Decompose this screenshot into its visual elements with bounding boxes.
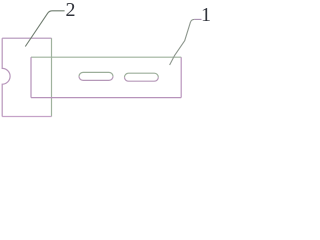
- leader line for label 2: [25, 11, 64, 47]
- bar 1 top edge: [31, 56, 181, 58]
- plate 2 bottom edge: [2, 116, 51, 118]
- leader line for label 1, curved diagonal segment: [170, 19, 195, 65]
- plate 2 right edge: [51, 38, 53, 116]
- slot left (obround) upper half: [79, 72, 113, 76]
- leader line for label 1, horizontal segment: [194, 18, 201, 20]
- label digit 1: [201, 4, 211, 27]
- label digit 2: [66, 0, 76, 22]
- bar 1 bottom edge: [31, 97, 181, 99]
- bar 1 right edge: [180, 57, 182, 97]
- slot right (obround) upper half: [125, 73, 159, 77]
- bar 1 left edge: [30, 57, 32, 97]
- slot right (obround) lower half: [125, 77, 159, 81]
- slot left (obround) lower half: [79, 76, 113, 80]
- plate 2 left edge upper with semicircular notch: [2, 38, 10, 116]
- plate 2 outline top edge: [2, 37, 51, 39]
